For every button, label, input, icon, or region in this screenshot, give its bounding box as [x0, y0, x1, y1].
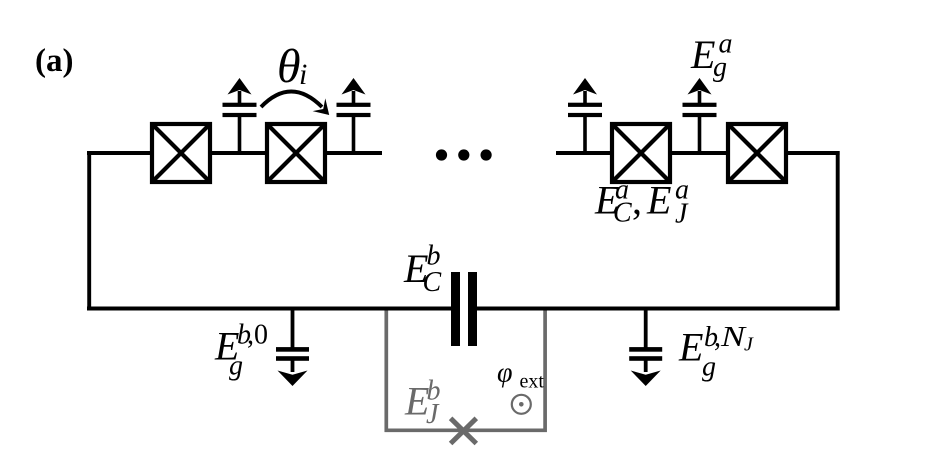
junction E_J^b (gray cross): [451, 418, 477, 443]
svg-text:(a): (a): [35, 43, 73, 79]
gate capacitor Cg2 with voltage-source arrow: [337, 78, 371, 153]
wire: top-right horizontal segment: [556, 151, 840, 155]
svg-text:,0: ,0: [247, 320, 268, 351]
junction J1 (array junction box): [152, 124, 210, 182]
svg-text:C: C: [613, 198, 632, 229]
svg-text:J: J: [744, 334, 754, 356]
node: external flux symbol (circle-dot): [512, 395, 531, 414]
wire: bottom loop wire right of capacitor: [477, 307, 840, 311]
gate capacitor Cg3 with voltage-source arrow: [568, 78, 602, 153]
ellipsis dots (array continuation): [436, 149, 492, 160]
wire: top-left horizontal segment: [87, 151, 382, 155]
svg-text:N: N: [720, 322, 747, 353]
svg-text:g: g: [713, 52, 727, 83]
svg-text:E: E: [678, 325, 703, 370]
junction J4 (array junction box): [728, 124, 786, 182]
svg-text:θ: θ: [277, 40, 301, 93]
svg-text:J: J: [675, 199, 689, 230]
junction J3 (array junction box): [612, 124, 670, 182]
gate capacitor Cg1 with voltage-source arrow: [223, 78, 257, 153]
gate capacitor E_g^b0 with ground arrow: [276, 309, 309, 386]
svg-text:g: g: [229, 351, 243, 382]
theta_i hopping arrow (curved): [261, 92, 322, 108]
svg-text:φ: φ: [497, 358, 513, 389]
svg-text:,: ,: [714, 322, 721, 353]
gate capacitor Cg4 with voltage-source arrow: [683, 78, 717, 153]
svg-text:g: g: [702, 352, 716, 383]
wire: left vertical loop wire: [87, 151, 91, 310]
svg-text:i: i: [299, 58, 307, 91]
wire: right vertical loop wire: [836, 151, 840, 311]
svg-text:E: E: [690, 32, 715, 77]
svg-text:,: ,: [632, 178, 642, 223]
gate capacitor E_g^bNJ with ground arrow: [629, 309, 662, 386]
svg-text:J: J: [426, 399, 440, 430]
svg-text:C: C: [423, 267, 442, 298]
capacitor E_C^b (series capacitor in bottom wire): [451, 272, 477, 346]
junction J2 (array junction box): [267, 124, 325, 182]
svg-text:E: E: [646, 178, 671, 223]
wire: bottom loop wire left of capacitor: [87, 307, 451, 311]
wire: gray shunt loop (E_J^b branch): [386, 307, 545, 430]
svg-text:ext: ext: [520, 371, 545, 393]
